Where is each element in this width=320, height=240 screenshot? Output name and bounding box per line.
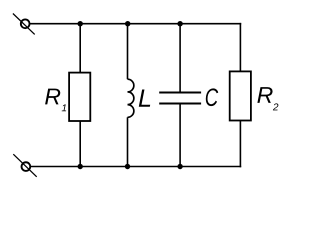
wire C top lead: [179, 24, 181, 93]
wire R1 bottom lead: [79, 121, 81, 167]
node dot top rail / R1: [78, 21, 83, 26]
terminal T2 (bottom-left input): [13, 154, 36, 177]
terminal T1 (top-left input): [13, 14, 35, 35]
node dot bottom rail / L: [125, 164, 130, 169]
resistor R2: [230, 71, 251, 120]
node dot top rail / C: [177, 21, 182, 26]
node dot bottom rail / C: [177, 164, 182, 169]
node dot top rail / L: [125, 21, 130, 26]
inductor L: [128, 79, 134, 117]
wire R2 top lead (right rail): [239, 23, 241, 72]
label L: [139, 90, 150, 107]
wire R2 bottom lead (right rail): [239, 121, 241, 168]
wire R1 top lead: [79, 24, 81, 73]
wire bottom rail: [30, 166, 241, 168]
wire top rail: [30, 23, 242, 25]
wire C bottom lead: [179, 104, 181, 167]
node dot bottom rail / R1: [78, 164, 83, 169]
label R1: [45, 89, 66, 112]
wire L top lead: [127, 24, 129, 79]
label C: [206, 88, 218, 106]
capacitor C top plate: [159, 92, 201, 94]
resistor R1: [69, 73, 90, 121]
capacitor C bottom plate: [159, 103, 201, 105]
wire L bottom lead: [127, 117, 129, 166]
label R2: [257, 87, 278, 110]
